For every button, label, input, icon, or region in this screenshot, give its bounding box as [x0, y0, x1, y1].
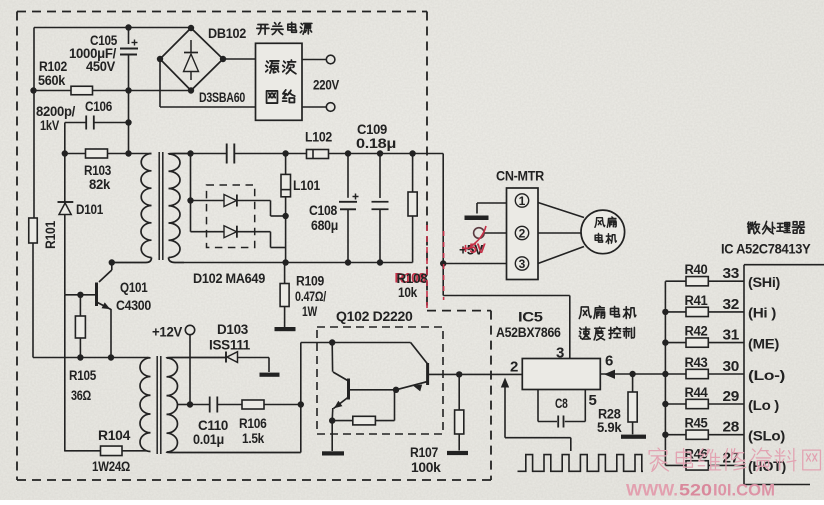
svg-text:C8: C8 — [555, 396, 568, 411]
svg-text:33: 33 — [723, 265, 740, 282]
svg-text:2: 2 — [510, 359, 518, 376]
svg-text:R45: R45 — [685, 416, 709, 431]
svg-text:82k: 82k — [89, 177, 111, 192]
svg-text:(Lo-): (Lo-) — [748, 368, 785, 383]
svg-text:R103: R103 — [84, 163, 112, 178]
svg-text:Q102 D2220: Q102 D2220 — [336, 309, 413, 324]
svg-text:R102: R102 — [39, 59, 67, 74]
svg-text:R108: R108 — [397, 271, 429, 286]
svg-text:2: 2 — [519, 226, 526, 240]
svg-text:1.5k: 1.5k — [242, 431, 265, 446]
svg-text:1W: 1W — [302, 304, 317, 319]
svg-text:R105: R105 — [69, 368, 97, 383]
svg-text:R106: R106 — [239, 416, 267, 431]
svg-text:R40: R40 — [685, 262, 708, 277]
svg-text:R109: R109 — [296, 274, 324, 289]
svg-text:100k: 100k — [411, 460, 441, 475]
svg-text:27: 27 — [723, 449, 740, 466]
svg-text:(SHi): (SHi) — [748, 275, 780, 290]
svg-text:WWW.: WWW. — [626, 481, 678, 500]
svg-text:6: 6 — [605, 353, 613, 370]
svg-text:1W24Ω: 1W24Ω — [92, 459, 130, 474]
svg-text:L101: L101 — [293, 178, 321, 193]
svg-text:D102 MA649: D102 MA649 — [193, 271, 265, 286]
svg-text:3: 3 — [556, 345, 564, 362]
svg-text:220V: 220V — [313, 78, 339, 93]
svg-text:Q101: Q101 — [120, 280, 148, 295]
svg-text:L102: L102 — [305, 130, 332, 145]
svg-text:(Lo ): (Lo ) — [748, 398, 779, 413]
svg-text:R43: R43 — [685, 355, 709, 370]
svg-text:31: 31 — [723, 327, 740, 344]
svg-text:1kV: 1kV — [40, 118, 59, 133]
svg-text:A52BX7866: A52BX7866 — [496, 325, 561, 340]
svg-text:(SLo): (SLo) — [748, 429, 785, 444]
svg-text:R44: R44 — [685, 385, 709, 400]
svg-text:520: 520 — [679, 481, 712, 500]
svg-text:CN-MTR: CN-MTR — [496, 169, 545, 184]
svg-text:680μ: 680μ — [311, 218, 338, 233]
svg-text:0.47Ω/: 0.47Ω/ — [295, 289, 326, 304]
svg-text:560k: 560k — [38, 73, 66, 88]
svg-text:+12V: +12V — [152, 325, 182, 340]
svg-text:5: 5 — [589, 392, 597, 409]
svg-text:(ME): (ME) — [748, 336, 779, 351]
svg-text:1: 1 — [519, 194, 526, 208]
svg-text:5.9k: 5.9k — [597, 420, 622, 435]
svg-text:3: 3 — [519, 257, 526, 271]
svg-text:IC A52C78413Y: IC A52C78413Y — [721, 242, 811, 257]
svg-text:I0I.COM: I0I.COM — [713, 481, 775, 500]
svg-text:30: 30 — [723, 358, 740, 375]
svg-text:C4300: C4300 — [116, 298, 151, 313]
svg-text:R104: R104 — [98, 428, 131, 443]
svg-text:D3SBA60: D3SBA60 — [199, 90, 245, 105]
svg-text:450V: 450V — [86, 59, 115, 74]
svg-text:D103: D103 — [217, 322, 249, 337]
svg-text:(Hi ): (Hi ) — [748, 306, 776, 321]
svg-text:ISS111: ISS111 — [209, 338, 251, 353]
svg-text:DB102: DB102 — [208, 26, 246, 41]
svg-text:29: 29 — [723, 388, 740, 405]
svg-text:0.01μ: 0.01μ — [193, 432, 224, 447]
svg-text:R46: R46 — [685, 446, 709, 461]
svg-text:C110: C110 — [198, 418, 228, 433]
svg-text:C109: C109 — [357, 122, 387, 137]
svg-text:D101: D101 — [76, 202, 104, 217]
svg-text:C106: C106 — [85, 99, 113, 114]
svg-text:R107: R107 — [410, 445, 438, 460]
svg-text:C108: C108 — [309, 203, 338, 218]
svg-text:36Ω: 36Ω — [71, 388, 91, 403]
svg-text:R42: R42 — [685, 324, 708, 339]
svg-text:0.18μ: 0.18μ — [356, 136, 396, 151]
svg-text:8200p/: 8200p/ — [36, 104, 76, 119]
svg-text:IC5: IC5 — [518, 310, 544, 325]
svg-text:32: 32 — [723, 296, 740, 313]
svg-text:R101: R101 — [43, 220, 58, 249]
svg-text:R41: R41 — [685, 293, 709, 308]
svg-text:10k: 10k — [398, 285, 418, 300]
svg-text:28: 28 — [723, 419, 740, 436]
